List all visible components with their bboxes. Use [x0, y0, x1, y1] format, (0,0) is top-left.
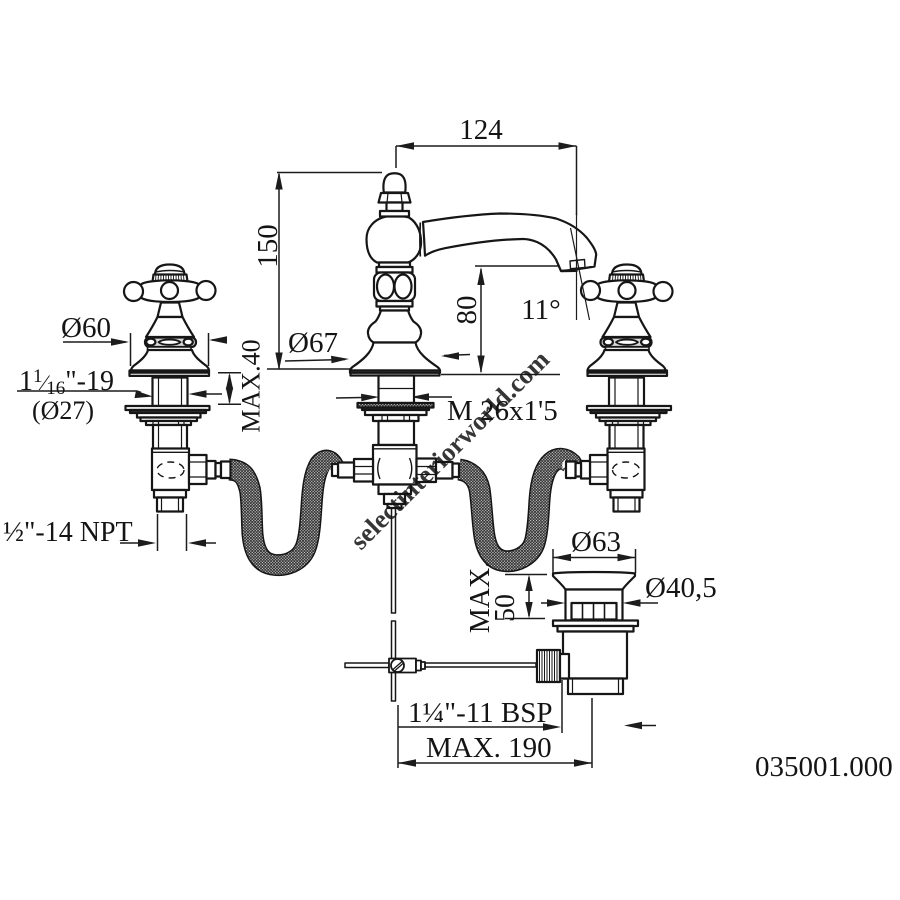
dim MAX.40: [218, 373, 241, 405]
cross handle arms: [139, 280, 201, 301]
neck under cross: [158, 303, 183, 318]
finial acorn: [383, 173, 405, 192]
pop-up rod vertical: [392, 508, 396, 701]
right ball: [197, 281, 216, 300]
collar below ring: [377, 301, 413, 307]
center valve body: [373, 445, 417, 485]
left handle assembly: [124, 265, 231, 512]
center bottom caps: [379, 485, 412, 495]
outlet adapter: [207, 461, 216, 479]
drain tailpiece: [568, 679, 623, 695]
svg-text:MAX. 190: MAX. 190: [426, 732, 552, 764]
svg-text:124: 124: [459, 114, 503, 146]
pop-up lever left bar: [345, 663, 389, 668]
ring section with ovals: [374, 273, 415, 302]
locknut: [146, 421, 191, 425]
dim 124 top: [396, 142, 577, 215]
svg-text:MAX.40: MAX.40: [237, 339, 266, 432]
right flexible hose: [459, 459, 572, 561]
svg-text:50: 50: [490, 594, 521, 622]
dim 1 1/4-11 BSP: [398, 680, 656, 733]
drain mid flange: [553, 621, 638, 627]
center locknut: [373, 415, 419, 421]
right hex fitting: [417, 459, 437, 483]
dim 80: [441, 266, 560, 375]
pop-up lever rod to drain: [425, 663, 536, 667]
center shank: [379, 376, 415, 404]
spout body bulb: [367, 216, 422, 263]
svg-text:1¼"-11 BSP: 1¼"-11 BSP: [408, 697, 553, 729]
collar below bulb: [379, 263, 410, 268]
drain flange cone: [553, 572, 635, 590]
svg-text:Ø63: Ø63: [571, 526, 621, 558]
ring band with ovals: [145, 338, 196, 348]
svg-text:(Ø27): (Ø27): [32, 396, 94, 425]
spout arm: [423, 214, 596, 272]
dim diam40,5: [541, 599, 658, 606]
handle dome cap: [155, 265, 185, 276]
vase neck: [368, 311, 421, 343]
thread label M 26x1'5: [336, 393, 452, 401]
dim diam67 spout base: [285, 352, 470, 363]
drain upper body: [566, 590, 623, 621]
left ball: [124, 282, 143, 301]
upper shank: [153, 378, 188, 407]
valve body: [152, 449, 189, 491]
center boss: [161, 282, 178, 299]
center washer plate: [358, 403, 434, 408]
lever coupling nut: [537, 650, 560, 682]
left adapter: [338, 463, 354, 478]
lever clamp: [389, 659, 425, 673]
outlet hex fitting: [189, 455, 207, 484]
svg-text:½"-14 NPT: ½"-14 NPT: [3, 517, 133, 548]
svg-text:Ø67: Ø67: [288, 327, 338, 359]
svg-text:11°: 11°: [521, 294, 561, 326]
dim MAX. 50: [505, 575, 547, 619]
svg-text:Ø40,5: Ø40,5: [645, 572, 717, 604]
right handle assembly (mirror): [566, 265, 673, 512]
svg-text:Ø60: Ø60: [61, 312, 111, 344]
dim diam63 drain: [553, 549, 636, 573]
svg-text:80: 80: [451, 296, 483, 325]
left hex fitting: [354, 459, 373, 482]
deck flange: [130, 373, 210, 376]
spout bell base: [350, 343, 440, 371]
spout collar line: [419, 223, 421, 257]
washer: [126, 406, 210, 410]
lower shank: [153, 425, 187, 451]
knurled band: [153, 275, 188, 282]
dim 1/2-14 NPT: [120, 514, 216, 551]
right adapter: [436, 462, 453, 479]
dim MAX. 190: [398, 698, 592, 768]
thread label 1 1/16-19: [17, 390, 222, 398]
spout aerator: [570, 260, 585, 269]
lower bell: [131, 350, 209, 371]
dim diam60 left handle: [63, 333, 227, 366]
svg-text:150: 150: [252, 224, 284, 268]
center lower shank: [379, 421, 415, 445]
drain crown slots: [572, 603, 617, 620]
angle 11 deg reference lines: [571, 213, 590, 320]
left flexible hose: [229, 461, 334, 566]
bottom hex: [154, 490, 186, 498]
dim 150 left: [267, 172, 382, 371]
drain lower body: [563, 632, 627, 679]
threaded inlet tip: [157, 498, 183, 512]
upper skirt bell: [146, 317, 194, 337]
svg-text:035001.000: 035001.000: [755, 751, 893, 783]
